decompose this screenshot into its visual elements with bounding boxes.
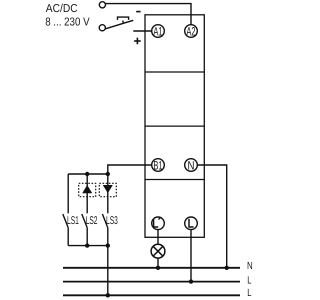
svg-text:AC/DC: AC/DC	[46, 3, 78, 15]
node dot N bus	[225, 266, 229, 270]
svg-text:L: L	[247, 275, 251, 286]
svg-text:LS3: LS3	[106, 215, 118, 227]
diode D1	[79, 183, 96, 196]
node dot bottom rail LS3	[106, 243, 110, 247]
diode D2	[99, 183, 116, 196]
bus line L1	[63, 281, 240, 283]
node dot lamp N bus	[156, 266, 160, 270]
svg-text:A2: A2	[186, 24, 195, 38]
label plus	[134, 38, 141, 45]
wire supply top pin to A2	[106, 4, 192, 25]
wire L to L bus	[190, 230, 192, 282]
wire B1 to switch rail	[108, 165, 152, 174]
node dot rail D2	[106, 172, 110, 176]
terminal N	[185, 158, 198, 172]
wire switch to A1	[133, 30, 151, 32]
svg-text:N: N	[188, 158, 195, 172]
svg-text:LS2: LS2	[86, 215, 98, 227]
wire lamp to N bus	[157, 258, 159, 268]
wire LS rail to L bus	[107, 246, 109, 296]
switch S1 supply push-button	[105, 17, 133, 29]
terminal B1	[152, 158, 165, 172]
terminal L'	[152, 217, 165, 230]
node dot L2 bus	[106, 293, 110, 297]
switch LS1	[63, 214, 79, 246]
supply terminal pin bottom	[99, 25, 105, 31]
terminal A1	[152, 24, 165, 38]
node dot L bus	[189, 279, 193, 283]
node dot rail D1	[85, 172, 89, 176]
lamp E1	[151, 244, 165, 258]
svg-text:LS1: LS1	[67, 215, 79, 227]
wire N to N bus	[197, 165, 226, 268]
svg-text:L: L	[247, 288, 251, 299]
switch rail top	[68, 173, 108, 175]
svg-text:A1: A1	[153, 24, 162, 38]
svg-text:8 ... 230 V: 8 ... 230 V	[45, 17, 90, 29]
divider 2	[145, 125, 204, 127]
wire D1 column	[86, 174, 88, 213]
device outline	[145, 15, 204, 238]
wire L' to lamp	[157, 230, 159, 245]
divider 3	[145, 179, 204, 181]
supply terminal pin top	[99, 2, 105, 8]
wire LS1 drop	[67, 174, 69, 213]
divider 1	[145, 71, 204, 73]
bus line N	[63, 267, 240, 269]
label minus	[136, 11, 140, 13]
terminal L	[185, 217, 198, 230]
bus line L2	[63, 294, 240, 296]
svg-text:N: N	[247, 261, 253, 272]
svg-text:B1: B1	[153, 158, 162, 172]
switch LS2	[82, 214, 98, 246]
wire D2 column	[107, 174, 109, 213]
switch rail bottom	[68, 245, 108, 247]
node dot bottom rail LS2	[85, 243, 89, 247]
terminal A2	[185, 24, 198, 38]
switch LS3	[102, 214, 117, 246]
